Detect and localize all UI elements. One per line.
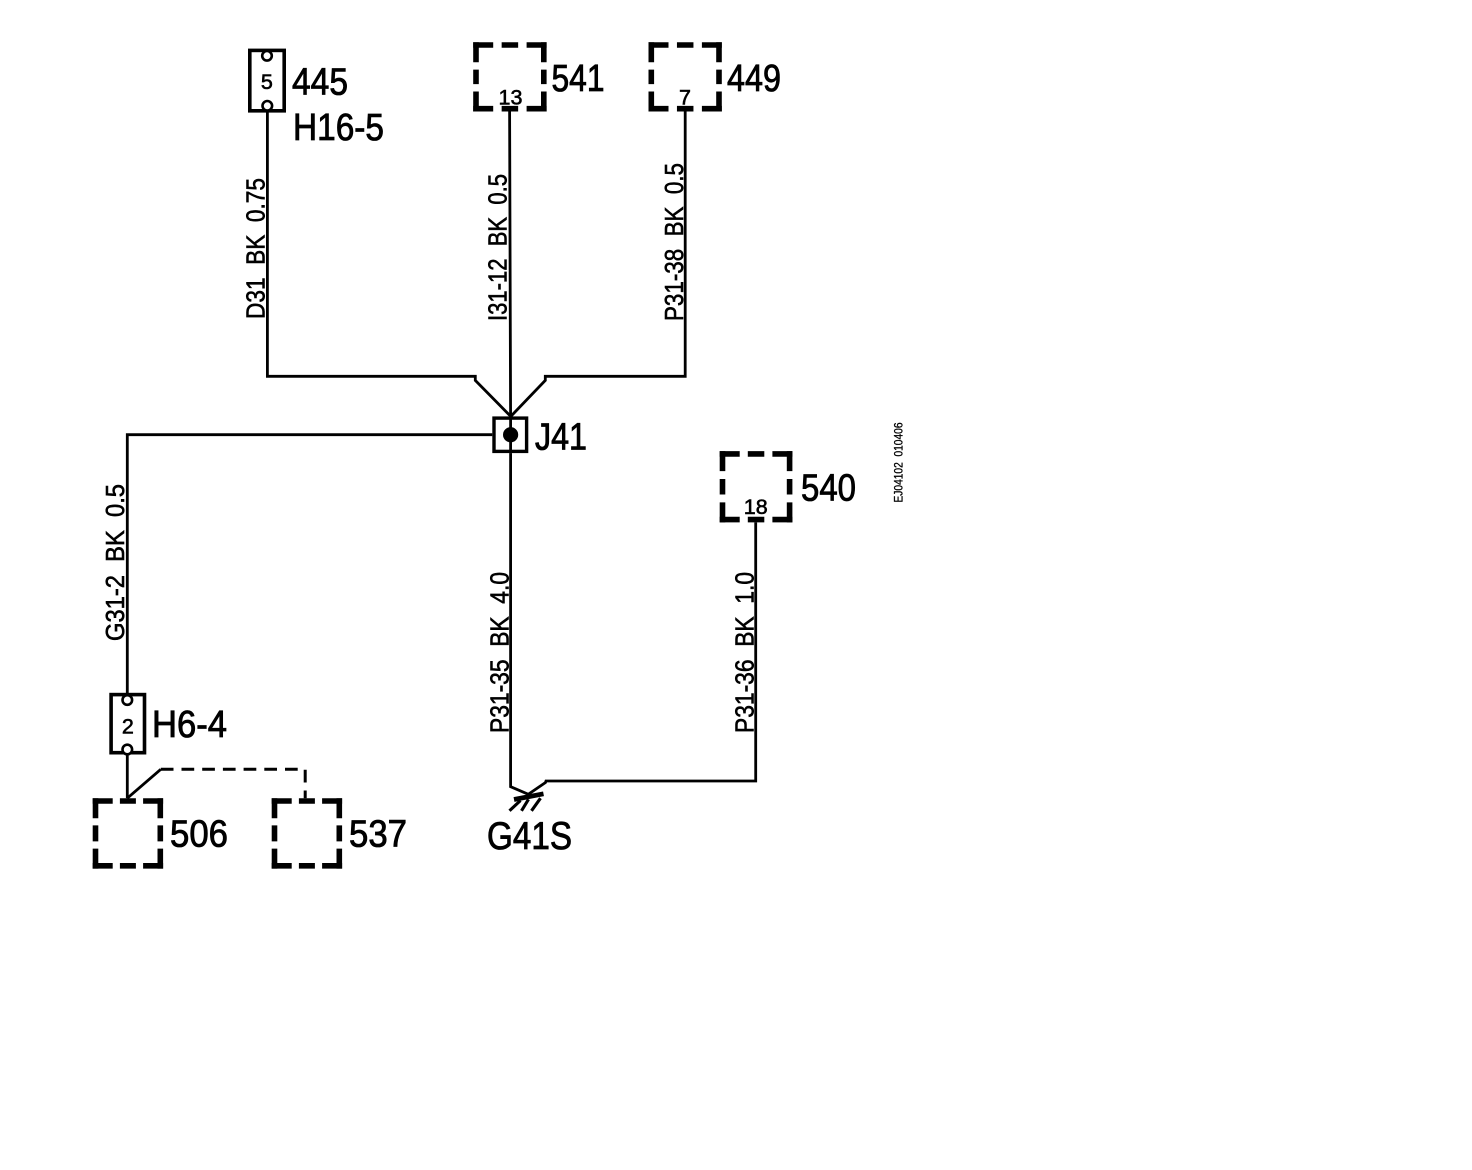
svg-text:P31-36 BK 1.0: P31-36 BK 1.0 [730,572,760,733]
svg-text:H16-5: H16-5 [293,107,384,149]
svg-text:7: 7 [679,85,691,109]
svg-text:506: 506 [170,814,228,856]
connector H6-4 (pin 2) [111,695,144,755]
wire I31-12 from 541 to J41 [510,112,511,454]
connector 537 (dashed box) [272,798,342,868]
svg-text:2: 2 [122,715,134,739]
wire branch diagonal to dashed link [127,769,161,798]
connector 541 (dashed box) [473,42,546,111]
svg-text:541: 541 [552,58,605,100]
wire P31-35 from J41 to ground G41S and to 540 [511,453,756,794]
junction J41 [494,416,527,453]
svg-text:445: 445 [292,62,348,104]
svg-text:EJ04102 010406: EJ04102 010406 [894,423,906,503]
svg-text:18: 18 [744,495,768,519]
ground symbol G41S [510,794,544,811]
connector 445 (H16-5 pin 5) [250,50,284,110]
svg-text:537: 537 [349,814,407,856]
svg-text:13: 13 [499,85,523,109]
connector 449 (dashed box) [649,42,722,111]
svg-text:D31 BK 0.75: D31 BK 0.75 [241,178,271,319]
wire H6-4 to 506 [126,754,129,799]
svg-text:5: 5 [261,70,273,94]
svg-text:G31-2 BK 0.5: G31-2 BK 0.5 [100,484,130,641]
wire D31 from 445 to J41 [267,111,510,416]
connector 540 (dashed box) [720,451,793,522]
connector 506 (dashed box) [93,798,163,868]
svg-text:G41S: G41S [487,815,572,858]
svg-text:I31-12 BK 0.5: I31-12 BK 0.5 [483,174,513,321]
wire P31-38 from 449 to J41 [511,112,685,417]
svg-text:449: 449 [727,58,781,100]
dashed link wire to 537 [161,769,305,798]
wire G31-2 from J41 to H6-4 [127,435,492,693]
svg-text:540: 540 [801,468,856,510]
svg-text:J41: J41 [535,417,587,459]
svg-text:P31-38 BK 0.5: P31-38 BK 0.5 [659,163,689,321]
svg-text:P31-35 BK 4.0: P31-35 BK 4.0 [485,572,515,733]
svg-text:H6-4: H6-4 [152,704,227,746]
